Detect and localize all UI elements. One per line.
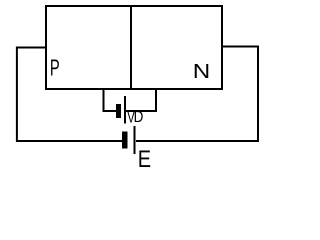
svg-text:P: P: [50, 55, 60, 81]
svg-text:D: D: [134, 109, 144, 126]
PN junction body U1: [46, 6, 222, 89]
label E: [138, 146, 151, 173]
label VD: [127, 109, 143, 127]
svg-text:E: E: [138, 146, 151, 172]
battery E positive plate (thin): [134, 126, 136, 154]
svg-text:N: N: [193, 61, 211, 83]
wire right loop (N terminal to battery E): [136, 47, 258, 142]
label N: [193, 61, 211, 83]
battery VD negative plate (thick): [116, 104, 121, 118]
wire left loop (P terminal to battery E): [17, 48, 122, 142]
label P: [50, 55, 60, 81]
wire VD right lead: [126, 89, 156, 111]
wire VD left lead: [104, 89, 117, 111]
junction divider: [130, 5, 132, 90]
battery E negative plate (thick): [122, 132, 128, 149]
battery VD positive plate (thin): [124, 96, 126, 124]
